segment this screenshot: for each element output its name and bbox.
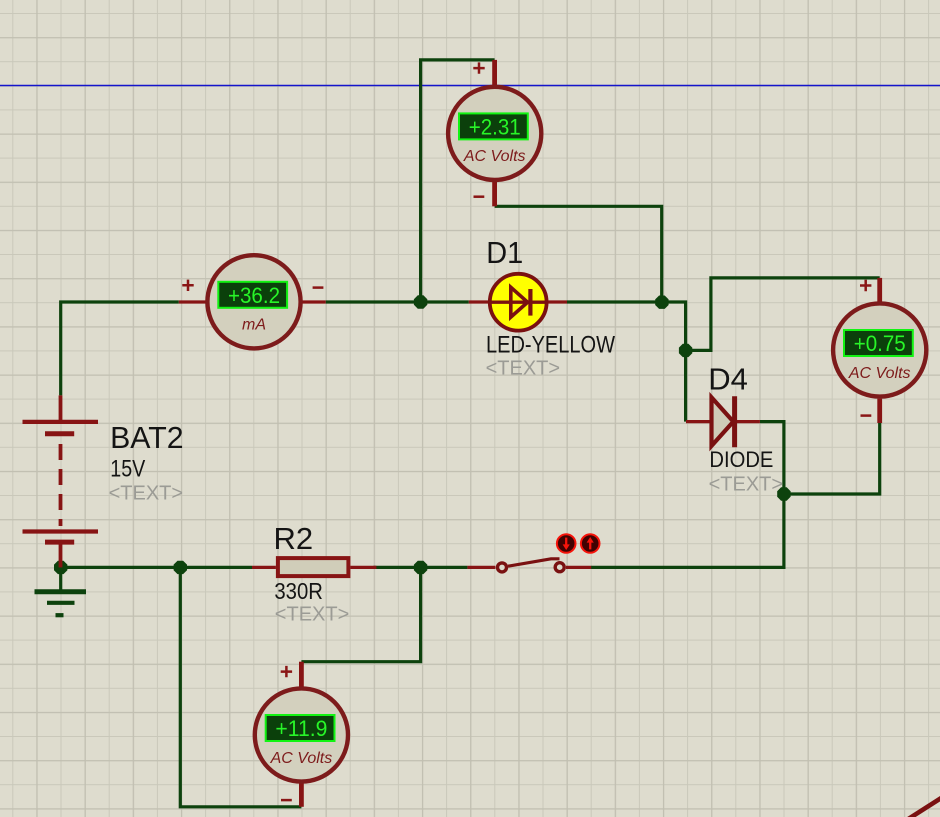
svg-text:+0.75: +0.75 xyxy=(854,331,906,356)
svg-text:+2.31: +2.31 xyxy=(469,115,521,140)
svg-text:D4: D4 xyxy=(708,362,748,397)
svg-text:DIODE: DIODE xyxy=(709,447,773,472)
svg-text:D1: D1 xyxy=(486,235,523,270)
svg-text:<TEXT>: <TEXT> xyxy=(275,604,349,626)
svg-text:LED-YELLOW: LED-YELLOW xyxy=(486,331,615,358)
svg-text:BAT2: BAT2 xyxy=(110,420,184,455)
svg-text:R2: R2 xyxy=(274,521,314,556)
svg-text:AC Volts: AC Volts xyxy=(463,148,526,165)
svg-text:<TEXT>: <TEXT> xyxy=(486,357,560,379)
svg-text:+11.9: +11.9 xyxy=(275,716,327,741)
svg-text:AC Volts: AC Volts xyxy=(848,365,911,382)
svg-text:<TEXT>: <TEXT> xyxy=(109,483,183,505)
svg-text:+36.2: +36.2 xyxy=(228,283,280,308)
svg-text:mA: mA xyxy=(242,317,266,334)
svg-text:AC Volts: AC Volts xyxy=(270,750,333,767)
svg-text:15V: 15V xyxy=(110,456,145,483)
svg-text:330R: 330R xyxy=(274,578,323,604)
svg-text:<TEXT>: <TEXT> xyxy=(709,473,783,495)
